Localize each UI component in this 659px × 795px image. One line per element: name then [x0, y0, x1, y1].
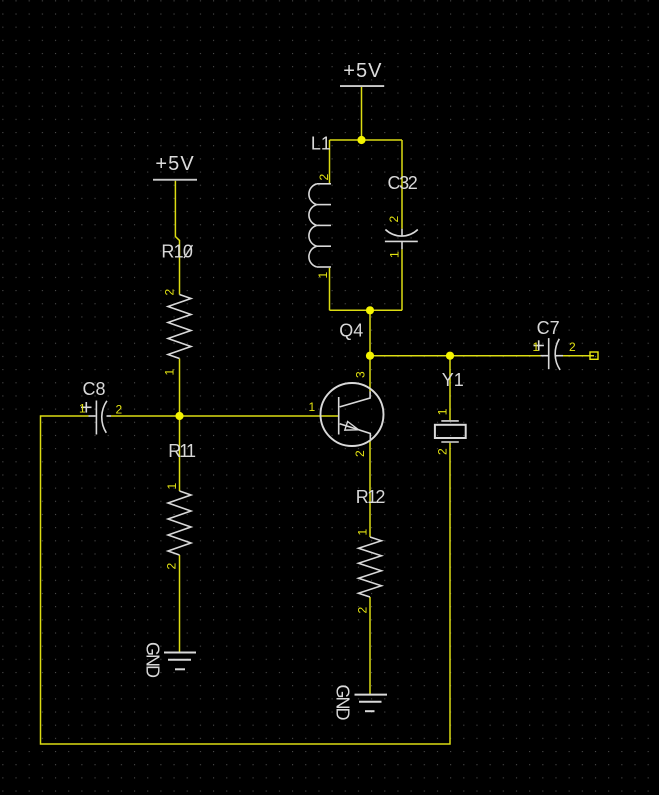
- svg-text:1: 1: [533, 340, 540, 354]
- svg-text:Y1: Y1: [442, 370, 464, 390]
- svg-text:1: 1: [316, 272, 330, 279]
- svg-text:C8: C8: [83, 379, 106, 399]
- svg-text:1: 1: [309, 400, 316, 414]
- svg-text:+5V: +5V: [343, 60, 382, 82]
- svg-text:2: 2: [353, 450, 367, 457]
- svg-text:2: 2: [356, 607, 370, 614]
- svg-text:2: 2: [317, 174, 331, 181]
- svg-text:L1: L1: [311, 133, 331, 153]
- svg-text:GND: GND: [142, 642, 162, 678]
- svg-text:1: 1: [163, 369, 177, 376]
- svg-text:Q4: Q4: [339, 321, 363, 341]
- svg-text:2: 2: [436, 448, 450, 455]
- svg-text:R11: R11: [168, 441, 196, 461]
- svg-text:C7: C7: [537, 318, 560, 338]
- svg-text:1: 1: [79, 402, 86, 416]
- svg-text:R12: R12: [356, 487, 386, 507]
- svg-text:2: 2: [163, 289, 177, 296]
- svg-text:1: 1: [436, 408, 450, 415]
- svg-text:1: 1: [388, 251, 402, 258]
- svg-text:2: 2: [116, 403, 123, 417]
- svg-text:C32: C32: [388, 173, 418, 193]
- svg-text:1: 1: [165, 483, 179, 490]
- svg-text:1: 1: [356, 529, 370, 536]
- svg-text:2: 2: [387, 216, 401, 223]
- svg-text:3: 3: [354, 371, 368, 378]
- svg-text:GND: GND: [332, 685, 352, 721]
- svg-text:2: 2: [569, 340, 576, 354]
- svg-text:2: 2: [165, 563, 179, 570]
- svg-text:+5V: +5V: [155, 153, 194, 175]
